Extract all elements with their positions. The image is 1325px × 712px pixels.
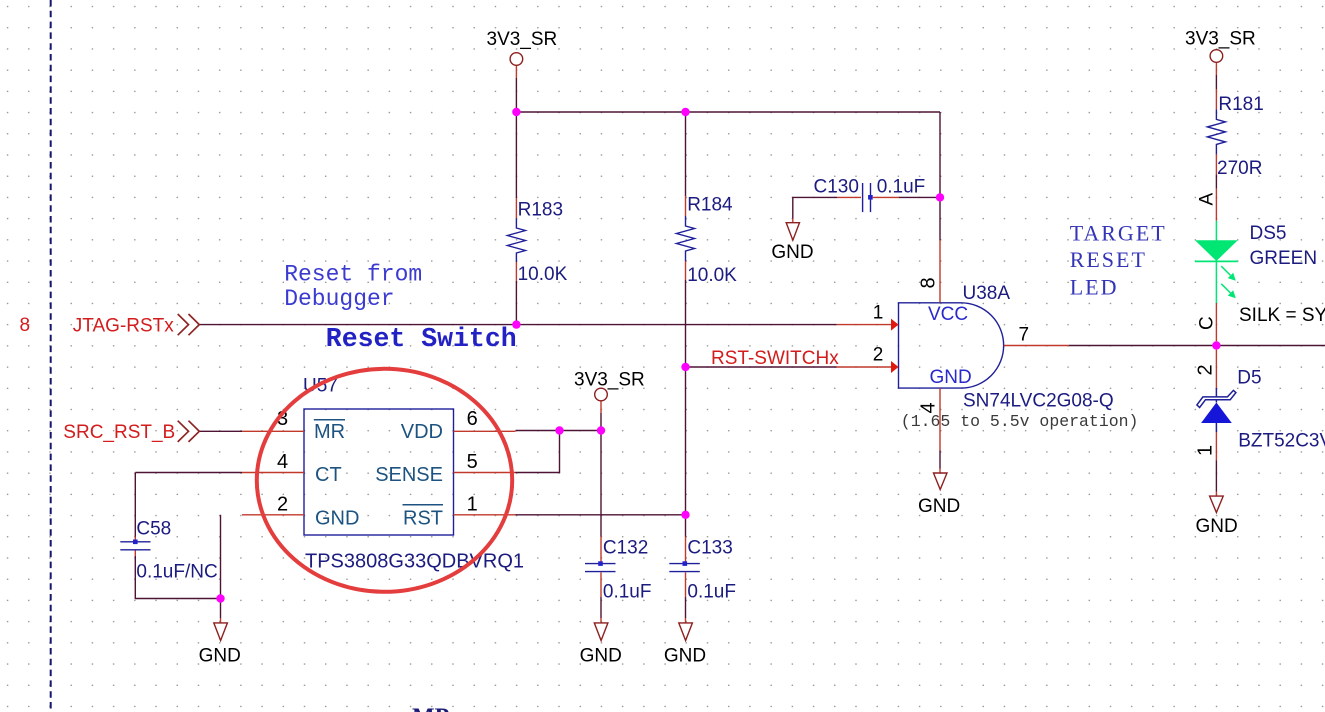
svg-text:4: 4 [918,402,940,413]
svg-text:10.0K: 10.0K [687,265,737,286]
svg-text:VCC: VCC [928,304,968,325]
resistor R184 [677,195,738,287]
svg-text:0.1uF: 0.1uF [687,582,736,603]
svg-text:1: 1 [467,494,478,516]
ground C130 [771,219,813,264]
svg-text:CT: CT [315,464,342,486]
junction [1212,341,1220,349]
gate pin 4 [918,388,941,450]
annotation red ellipse [257,369,512,592]
ground D5 [1196,492,1238,538]
svg-text:SENSE: SENSE [375,464,443,486]
chip pin 6 [454,408,516,431]
wire [516,111,940,113]
wire [134,473,136,537]
capacitor C133 [669,537,736,603]
svg-text:C130: C130 [814,177,859,198]
wire [600,401,602,413]
svg-text:270R: 270R [1217,158,1262,179]
svg-text:Reset from: Reset from [284,262,422,288]
svg-text:SRC_RST_B: SRC_RST_B [63,422,175,443]
wire [515,66,517,79]
power 3V3_SR top [487,29,558,65]
svg-text:0.1uF: 0.1uF [877,177,926,198]
power 3V3_SR mid [574,370,645,401]
op-amp U38A gate [899,283,1139,431]
svg-text:2: 2 [873,345,884,366]
junction [936,193,944,201]
svg-text:3V3_SR: 3V3_SR [1185,29,1256,50]
svg-text:GREEN: GREEN [1250,248,1318,269]
svg-text:4: 4 [277,451,288,473]
zener D5 pin 1 [1195,432,1217,461]
svg-text:GND: GND [771,242,813,263]
wire [199,324,836,326]
svg-text:RST: RST [403,507,443,529]
junction [512,108,520,116]
svg-text:2: 2 [1195,364,1217,375]
svg-text:(1.65 to 5.5v operation): (1.65 to 5.5v operation) [901,412,1139,431]
wire [686,366,837,368]
svg-text:SILK = SYS: SILK = SYS [1239,305,1325,326]
svg-text:R181: R181 [1218,94,1263,115]
svg-text:MP: MP [412,705,449,712]
wire [899,196,940,198]
svg-text:R183: R183 [518,200,563,221]
chip pin 1 [454,494,516,516]
svg-text:GND: GND [315,507,359,529]
svg-text:U38A: U38A [963,283,1011,304]
junction [681,511,689,519]
ground C58 [199,618,241,667]
ground C132 [580,618,622,667]
svg-text:RST-SWITCHx: RST-SWITCHx [711,348,839,369]
wire [516,431,560,473]
capacitor C58 [120,519,217,583]
gate pin 8 [918,240,941,302]
wire [685,597,687,618]
zener D5 [1197,368,1325,452]
svg-text:3V3_SR: 3V3_SR [487,29,558,50]
svg-text:2: 2 [277,494,288,516]
svg-text:BZT52C3V3: BZT52C3V3 [1238,431,1325,452]
svg-text:Debugger: Debugger [284,286,394,312]
svg-text:GND: GND [580,646,622,667]
wire [220,515,222,618]
svg-text:5: 5 [467,451,478,473]
wire [685,367,687,537]
svg-text:VDD: VDD [401,421,443,443]
svg-text:MR: MR [314,421,345,443]
wire [1215,63,1217,75]
svg-text:R184: R184 [687,195,733,216]
svg-text:JTAG-RSTx: JTAG-RSTx [73,316,174,337]
svg-text:6: 6 [467,408,478,430]
junction [681,108,689,116]
chip pin 4 [242,451,304,473]
svg-text:TPS3808G33QDBVRQ1: TPS3808G33QDBVRQ1 [305,551,524,573]
svg-text:8: 8 [918,277,940,288]
junction [216,594,224,602]
svg-text:7: 7 [1019,325,1030,346]
svg-text:1: 1 [873,303,884,324]
net JTAG-RSTx [73,314,200,337]
note Reset from Debugger [284,262,422,312]
capacitor C130 [814,177,926,213]
resistor R183 [507,198,567,285]
svg-text:C133: C133 [687,537,732,558]
svg-text:GND: GND [199,646,241,667]
capacitor C132 [585,537,651,603]
note TARGET RESET LED [1070,221,1167,300]
svg-text:LED: LED [1070,275,1119,300]
svg-text:1: 1 [1195,445,1217,456]
ground gate [918,469,960,518]
svg-text:GND: GND [930,367,972,388]
wire [515,281,517,325]
gate pin 2 [837,345,899,374]
wire [135,556,220,599]
wire [1215,461,1217,492]
wire [516,514,686,516]
svg-text:Reset Switch: Reset Switch [326,324,517,354]
junction [681,363,689,371]
svg-text:C132: C132 [603,537,648,558]
svg-text:GND: GND [1196,516,1238,537]
junction [555,426,563,434]
wire [685,112,687,196]
wire [793,197,838,218]
wire [685,280,687,367]
svg-text:GND: GND [664,646,706,667]
gate pin 7 output [1004,325,1069,346]
svg-text:GND: GND [918,496,960,517]
chip pin 5 [454,451,516,473]
LED DS5 [1195,189,1317,341]
junction [512,320,520,328]
chip pin 3 [242,408,304,431]
ground C133 [664,618,706,667]
svg-text:A: A [1197,193,1218,206]
svg-text:RESET: RESET [1070,247,1147,272]
svg-text:TARGET: TARGET [1070,221,1167,246]
svg-text:DS5: DS5 [1250,223,1287,244]
wire [516,430,602,432]
zener D5 pin 2 [1195,350,1217,389]
wire [939,112,941,240]
svg-text:3V3_SR: 3V3_SR [574,370,645,391]
gate pin 1 [837,303,899,331]
wire [199,430,242,432]
svg-text:8: 8 [20,315,31,336]
wire [600,597,602,618]
wire [939,451,941,469]
net SRC_RST_B [63,421,199,443]
chip U57 [303,376,524,573]
wire [1069,345,1325,347]
resistor R181 [1207,89,1263,179]
chip pin 2 [242,494,304,516]
svg-text:C: C [1197,316,1218,330]
wire [1215,174,1217,188]
svg-text:0.1uF/NC: 0.1uF/NC [136,562,217,583]
svg-text:10.0K: 10.0K [518,264,568,285]
svg-text:C58: C58 [136,519,171,540]
svg-text:SN74LVC2G08-Q: SN74LVC2G08-Q [963,391,1114,412]
junction [597,426,605,434]
power 3V3_SR right [1185,29,1256,63]
svg-text:0.1uF: 0.1uF [603,582,652,603]
svg-text:D5: D5 [1237,368,1261,389]
wire [135,472,242,474]
